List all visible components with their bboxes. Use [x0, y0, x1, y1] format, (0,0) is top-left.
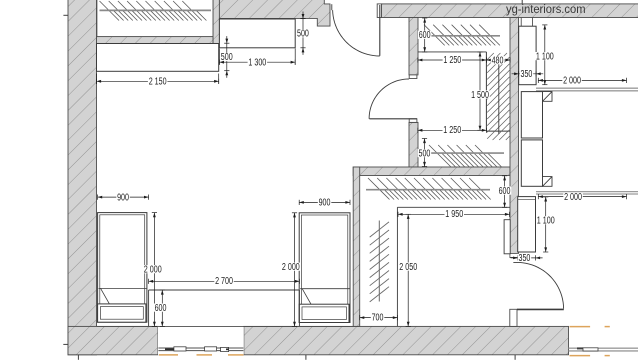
loggia window rail lower [536, 192, 638, 194]
loggia pier cabinet lower [521, 140, 542, 186]
closet shelf bottom rail [418, 152, 505, 154]
window W1 frame lines [158, 348, 243, 351]
dimension 500 closet bottom shelf [422, 139, 427, 167]
wall vertical between bedroom and lower-right room [353, 167, 360, 326]
dimension 600 desk depth [160, 290, 165, 326]
wall vertical corridor lower (below door D2) [409, 122, 418, 167]
window W1 casement boxes [174, 347, 229, 352]
bed B2 (right) [299, 213, 350, 323]
svg-text:600: 600 [419, 30, 431, 41]
dimension 1500 wardrobe length [477, 52, 482, 130]
svg-text:2 000: 2 000 [144, 265, 162, 276]
loggia pier cabinet upper [521, 92, 542, 138]
door D1 swing arc [333, 10, 380, 56]
dimension 2000 bed B1 length [152, 213, 157, 327]
wardrobe WD1 hatch [487, 53, 509, 140]
section tick above top wall [521, 0, 523, 4]
dimension 2700 between beds [149, 279, 300, 284]
wall left exterior [68, 0, 97, 355]
svg-text:yg-interiors.com: yg-interiors.com [506, 2, 586, 16]
svg-text:900: 900 [117, 192, 129, 203]
shelf front edge lower-right room [397, 206, 510, 208]
loggia cabinet top (350 deep) [519, 26, 536, 84]
wardrobe WD1 (480 wide) edges [486, 52, 509, 131]
dimension 1250 closet top [418, 57, 487, 62]
svg-text:1 250: 1 250 [443, 55, 461, 66]
dimension 600 closet top shelf [422, 18, 427, 52]
closet shelf top hatch [424, 25, 500, 46]
balcony window lines bottom right [569, 348, 638, 351]
loggia cabinet bottom (350 deep) [518, 197, 536, 252]
dimension 500 cabinet C2 depth [300, 12, 305, 55]
wall horizontal top of lower-right room [353, 167, 510, 176]
balcony window slider dark [577, 347, 583, 349]
dimension 500 cabinet C1 depth [224, 36, 229, 78]
closet niche hatch [100, 1, 207, 21]
svg-text:2 150: 2 150 [149, 77, 167, 88]
door D3 top jamb [510, 254, 519, 258]
door D2 leaf [369, 118, 417, 120]
loggia cabinet connection ticks [521, 18, 532, 27]
svg-text:2 000: 2 000 [564, 192, 582, 203]
svg-text:600: 600 [155, 303, 167, 314]
svg-text:2 000: 2 000 [282, 262, 300, 273]
door D3 swing arc [513, 262, 563, 308]
dimension 700 wardrobe depth [360, 315, 398, 320]
wall top with door pier [219, 0, 330, 26]
door D2 swing arc [369, 79, 409, 119]
svg-text:900: 900 [319, 198, 331, 209]
window W1 opening sill area [158, 327, 244, 355]
shelf rail lower-right room [366, 189, 490, 191]
closet shelf top rail [419, 35, 501, 37]
door D1 left jamb edge [331, 4, 333, 10]
door D1 leaf [379, 5, 381, 56]
hanging rod symbol lower-right room [378, 221, 380, 302]
svg-text:1 100: 1 100 [537, 216, 555, 227]
wall bottom exterior left of window [68, 326, 158, 354]
dimension 1250 closet bottom [418, 128, 487, 133]
wardrobe zone front edge [396, 207, 398, 326]
svg-text:350: 350 [521, 69, 533, 80]
dimension 1100 loggia cabinet bottom [543, 197, 548, 252]
door D3 leaf [517, 308, 564, 310]
window W1 under-sill dashes (orange) [159, 354, 244, 356]
dimension 2000 loggia upper [538, 78, 626, 83]
dimension 2000 bed B2 length [292, 213, 297, 327]
svg-text:1 950: 1 950 [445, 209, 463, 220]
dimension 1100 loggia cabinet [542, 25, 547, 85]
svg-text:500: 500 [297, 29, 309, 40]
dimension 900 bed B2 [299, 200, 350, 205]
svg-text:1 100: 1 100 [536, 51, 554, 62]
svg-text:700: 700 [372, 313, 384, 324]
bed B1 (left) [98, 213, 147, 323]
closet niche rail line [100, 9, 212, 11]
wardrobe WD1 rod [498, 56, 500, 134]
cabinet C2 (1300 long) [219, 19, 295, 48]
closet niche top-left (open wardrobe) [97, 0, 213, 37]
dimension 480 wardrobe [486, 57, 510, 62]
balcony window slider white [583, 348, 598, 351]
wall bottom exterior right of window [244, 326, 569, 354]
loggia pier cabinet lower notch [543, 177, 553, 187]
svg-text:2 000: 2 000 [563, 76, 581, 87]
cabinet C1 (2150 long) [97, 44, 219, 72]
loggia pier cabinet upper notch [543, 92, 553, 102]
dimension 600 lower-right shelf [502, 176, 507, 208]
dimension 350 door offset [511, 255, 543, 260]
wall vertical corridor upper (above door D2) [409, 18, 418, 75]
svg-text:1 300: 1 300 [248, 58, 266, 69]
wall right vertical (loggia side) [510, 18, 519, 258]
desk side edges [149, 290, 300, 326]
loggia cabinet bottom inner line [518, 198, 536, 200]
shelf hatch lower-right room [368, 178, 491, 200]
section tick bottom x78 [77, 355, 79, 360]
window W1 inner face line [97, 325, 354, 327]
desk between beds (front edge) [149, 289, 300, 291]
door D2 bottom jamb block [409, 119, 417, 123]
section tick left bottom [63, 343, 68, 345]
door D1 jamb [377, 4, 381, 18]
door D2 top jamb block [409, 75, 417, 79]
svg-text:480: 480 [492, 56, 504, 67]
svg-text:600: 600 [499, 186, 511, 197]
section tick left top [63, 14, 68, 16]
svg-text:350: 350 [519, 253, 531, 264]
wall top: block between niche and cabinet [213, 0, 219, 44]
dimension 1300 cabinet C2 [219, 49, 295, 65]
dimension 1950 lower-right room [398, 212, 510, 217]
svg-text:1 500: 1 500 [471, 90, 489, 101]
dimension 2000 loggia lower [538, 194, 626, 199]
orange dashed line upper right [570, 326, 610, 328]
wall top: strip under niche [97, 37, 214, 44]
closet shelf top front edge [418, 51, 487, 53]
svg-text:1 250: 1 250 [443, 125, 461, 136]
svg-text:500: 500 [419, 148, 431, 159]
svg-text:2 050: 2 050 [399, 262, 417, 273]
dimension 900 bed B1 [98, 195, 149, 200]
svg-text:2 700: 2 700 [215, 276, 233, 287]
dimension 350 loggia top [512, 71, 544, 76]
dimension 2050 lower-right room [406, 214, 411, 326]
closet shelf bottom hatch [429, 145, 502, 167]
dimension 2150 cabinet C1 [97, 74, 219, 84]
door D3 jamb block [510, 309, 517, 326]
radiator R1 on right wall [504, 220, 510, 254]
section tick bottom x306 [305, 355, 307, 360]
loggia window rail upper [536, 88, 638, 91]
section tick bottom x515 [514, 355, 516, 360]
wall top right of door D1 [382, 4, 638, 18]
orange dashed line lower right [570, 355, 610, 357]
